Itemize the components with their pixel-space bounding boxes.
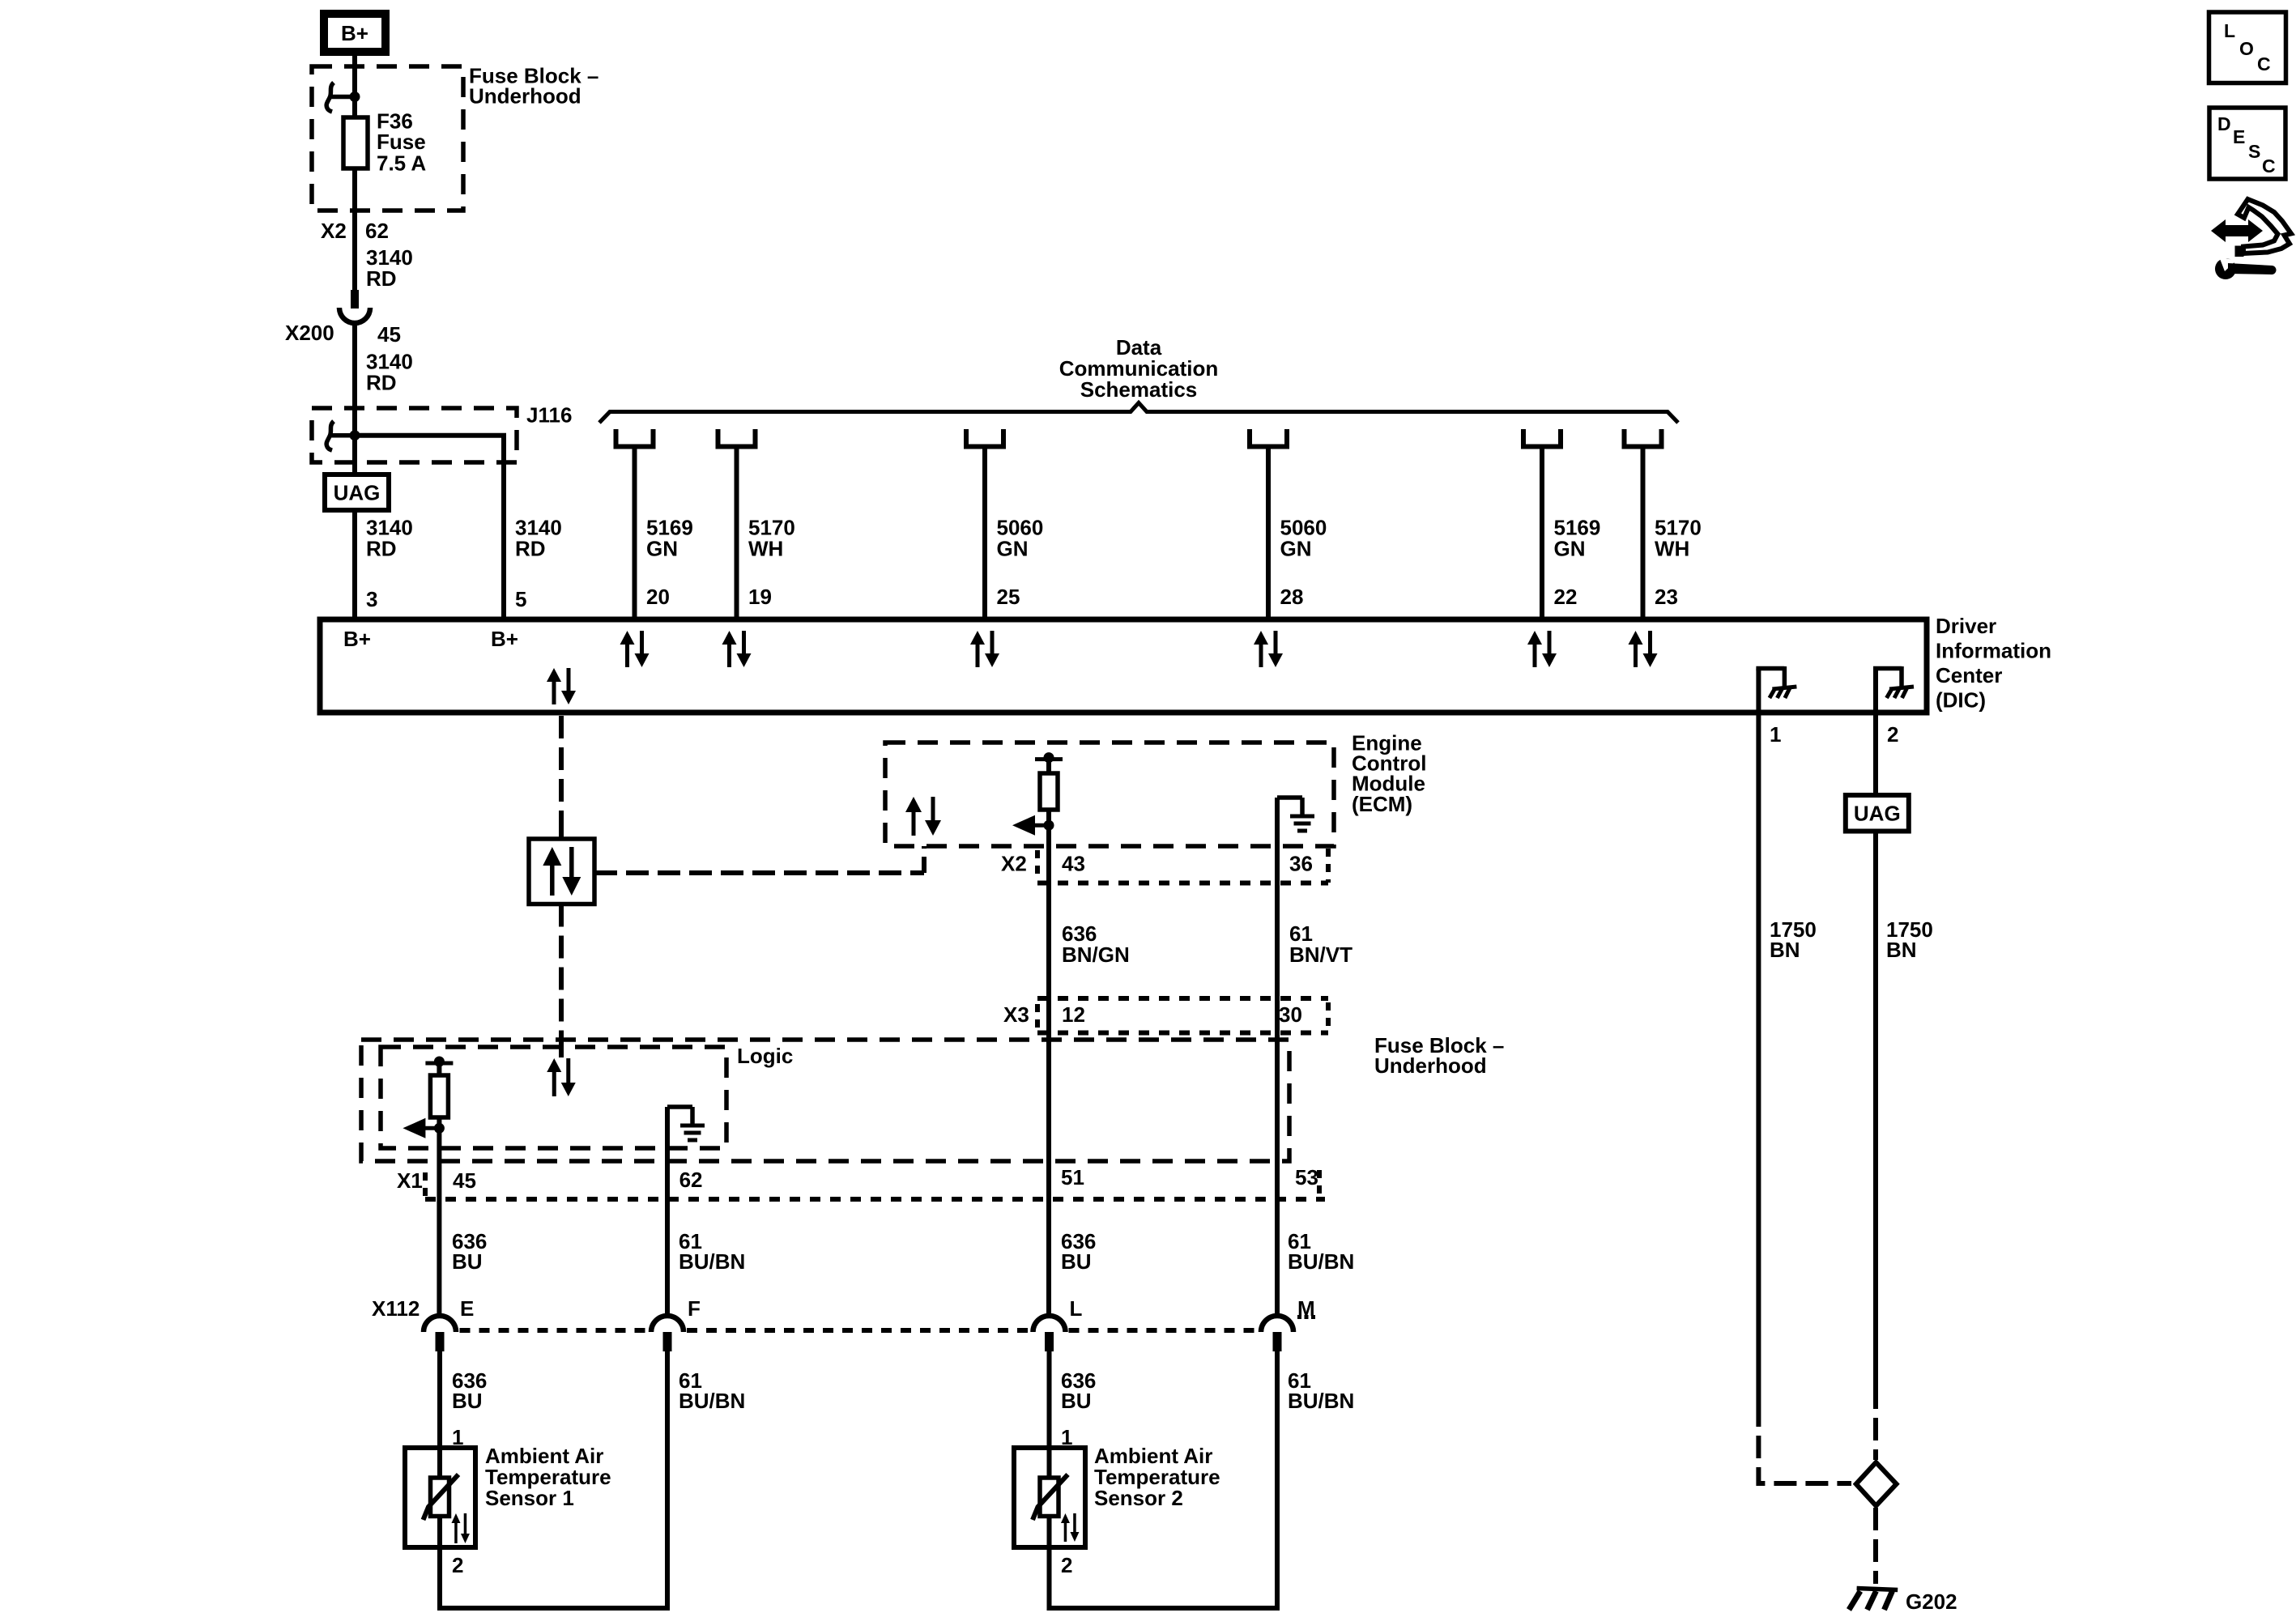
wire 1750 BN pin 2 upper	[1873, 716, 1878, 795]
svg-text:BN: BN	[1770, 938, 1800, 962]
svg-text:B+: B+	[491, 627, 518, 651]
resistor pull-up in ECM	[1035, 757, 1063, 761]
svg-text:M: M	[1297, 1296, 1315, 1321]
svg-text:2: 2	[1061, 1553, 1072, 1577]
Engine Control Module dashed box	[885, 743, 1334, 846]
svg-text:GN: GN	[1554, 537, 1586, 561]
svg-text:X3: X3	[1003, 1002, 1029, 1027]
svg-text:1: 1	[1770, 722, 1781, 747]
bidirectional arrows pin 25	[976, 643, 980, 667]
svg-text:5: 5	[515, 587, 526, 611]
hook terminal in J116	[326, 421, 334, 450]
connector X1 dotted left edge	[423, 1172, 428, 1197]
splice junction dot J116	[350, 430, 360, 440]
logic dashed box	[381, 1047, 726, 1148]
Driver Information Center box	[320, 619, 1927, 713]
arrows in ECM	[912, 811, 916, 836]
connector X3 dotted bottom edge	[1037, 1031, 1328, 1036]
arrows in logic box	[552, 1070, 556, 1096]
svg-text:L: L	[1070, 1296, 1083, 1321]
svg-text:UAG: UAG	[334, 481, 381, 505]
svg-text:BU/BN: BU/BN	[1288, 1249, 1354, 1274]
data wire 5060 GN	[1266, 447, 1271, 618]
connector X112 socket L	[1033, 1316, 1066, 1332]
wire from fuse to connector X2-62	[352, 168, 357, 290]
chassis ground symbol DIC pin 1	[1756, 669, 1761, 717]
connector X3 dotted left edge	[1035, 1004, 1040, 1028]
connector X1 dotted right edge	[1317, 1170, 1322, 1197]
svg-text:X2: X2	[321, 219, 347, 243]
hot-at-all-times hook terminal	[326, 83, 334, 112]
bidirectional arrows pin 28	[1259, 643, 1263, 667]
svg-text:BN/GN: BN/GN	[1062, 943, 1130, 967]
sensor 2 internal wire	[1047, 1448, 1052, 1479]
svg-text:E: E	[2233, 126, 2245, 147]
wire 3140 RD from B+ to fuse F36	[352, 56, 357, 117]
connector X112 trailing dots	[1297, 1315, 1301, 1319]
wire 61 BN/VT	[1275, 798, 1280, 1316]
svg-text:X112: X112	[372, 1296, 420, 1321]
svg-text:O: O	[2239, 38, 2254, 59]
svg-text:J116: J116	[526, 403, 572, 428]
svg-text:Driver: Driver	[1936, 614, 1996, 638]
svg-text:2: 2	[452, 1553, 463, 1577]
svg-text:28: 28	[1280, 585, 1304, 609]
ambient air temperature sensor 2 box	[1014, 1448, 1085, 1547]
wire J116 branch to DIC pin 5	[355, 436, 504, 617]
svg-text:X1: X1	[397, 1168, 423, 1193]
svg-text:C: C	[2257, 53, 2271, 74]
data link cup connector 1	[616, 429, 654, 447]
data link cup connector 6	[1625, 429, 1662, 447]
svg-text:2: 2	[1887, 722, 1898, 747]
dashed serial data wire below box	[559, 904, 564, 1057]
svg-text:Sensor 1: Sensor 1	[485, 1486, 574, 1510]
earth ground in logic	[667, 1104, 692, 1109]
svg-text:19: 19	[748, 585, 772, 609]
svg-text:F: F	[688, 1296, 701, 1321]
splice J116 dashed box	[312, 408, 517, 462]
connector X200 socket arc	[339, 308, 370, 323]
ambient air temperature sensor 1 box	[405, 1448, 475, 1547]
svg-text:S: S	[2248, 141, 2260, 162]
data link cup connector 3	[966, 429, 1003, 447]
arrows in sensor 1	[454, 1521, 458, 1543]
LOC hyperlink box	[2209, 12, 2286, 83]
svg-text:12: 12	[1062, 1002, 1085, 1027]
wire sensor 2 pin 2 down	[1047, 1547, 1052, 1611]
brace over data wires	[599, 403, 1678, 423]
connector X2 dotted bottom edge	[1037, 881, 1328, 886]
dashed serial data wire from DIC	[559, 716, 564, 839]
connector X112 dashed line 2	[687, 1328, 1030, 1333]
svg-text:36: 36	[1289, 852, 1313, 876]
connector X112 dashed line 3	[1069, 1328, 1259, 1333]
junction dot at fuse feed	[350, 91, 360, 102]
svg-text:30: 30	[1279, 1002, 1302, 1027]
connector X112 socket E	[424, 1316, 456, 1332]
connector X112 dashed line 1	[460, 1328, 649, 1333]
svg-text:RD: RD	[366, 537, 397, 561]
svg-text:BU: BU	[1061, 1249, 1092, 1274]
wire 636 BU to sensor 2	[1047, 1351, 1052, 1479]
svg-text:45: 45	[377, 322, 401, 347]
serial data arrow box	[529, 839, 594, 904]
dashed wire 1750 BN pin 1 lower	[1758, 1404, 1851, 1483]
wire sensor 1 pin 2 down	[437, 1547, 442, 1611]
svg-text:(ECM): (ECM)	[1352, 792, 1412, 816]
svg-text:BN: BN	[1886, 938, 1917, 962]
svg-text:Center: Center	[1936, 663, 2002, 687]
data link cup connector 2	[718, 429, 756, 447]
wire 3140 RD to J116	[352, 323, 357, 474]
resistor pull-up in logic	[425, 1062, 453, 1066]
svg-text:WH: WH	[1655, 537, 1689, 561]
wire 61 BU/BN down col F	[440, 1351, 667, 1608]
dashed wire splice to ground	[1873, 1508, 1878, 1584]
svg-text:62: 62	[365, 219, 389, 243]
svg-text:B+: B+	[343, 627, 371, 651]
chassis ground symbol DIC pin 2	[1873, 669, 1878, 717]
dashed wire 1750 BN pin 2 lower	[1873, 1386, 1878, 1460]
data link cup connector 4	[1250, 429, 1287, 447]
svg-text:Sensor 2: Sensor 2	[1094, 1486, 1183, 1510]
svg-text:3: 3	[366, 587, 377, 611]
data link cup connector 5	[1523, 429, 1561, 447]
connector X112 socket F	[651, 1316, 684, 1332]
UAG fuse label box 2	[1846, 795, 1909, 832]
svg-text:Information: Information	[1936, 639, 2051, 663]
svg-text:X200: X200	[285, 321, 334, 345]
dashed serial data wire to ECM	[594, 870, 924, 875]
svg-text:62: 62	[679, 1168, 703, 1192]
bidirectional arrows pin 20	[625, 643, 629, 667]
svg-text:BU/BN: BU/BN	[679, 1389, 745, 1413]
connector X2 dotted left edge	[1035, 850, 1040, 879]
svg-text:22: 22	[1554, 585, 1578, 609]
thermistor sensor 1	[431, 1478, 449, 1517]
svg-text:(DIC): (DIC)	[1936, 688, 1986, 713]
UAG fuse label box	[325, 474, 389, 510]
connector X2 dotted right edge	[1326, 849, 1331, 883]
fuse block underhood dashed box	[312, 66, 463, 211]
svg-text:RD: RD	[366, 370, 397, 394]
svg-text:Underhood: Underhood	[469, 84, 581, 109]
connector X1 dotted bottom edge	[425, 1197, 1325, 1202]
bidirectional arrows serial data	[552, 680, 556, 704]
wire 636 BU to sensor 1	[437, 1351, 442, 1479]
wire UAG to DIC pin 3	[352, 510, 357, 617]
svg-text:RD: RD	[515, 537, 546, 561]
svg-text:G202: G202	[1906, 1589, 1957, 1614]
data wire 5169 GN	[633, 447, 637, 618]
svg-text:BU: BU	[452, 1389, 483, 1413]
bidirectional arrows pin 19	[727, 643, 731, 667]
svg-text:45: 45	[453, 1168, 476, 1193]
earth ground in ECM	[1277, 795, 1302, 800]
svg-text:43: 43	[1062, 852, 1085, 876]
data wire 5060 GN	[982, 447, 987, 618]
connector X3 dotted top edge	[1037, 996, 1328, 1001]
data wire 5170 WH	[1641, 447, 1646, 618]
data wire 5170 WH	[735, 447, 739, 618]
wire 1750 BN pin 2 mid	[1873, 832, 1878, 1387]
fuse F36 element	[343, 117, 368, 168]
arrows in serial data box	[550, 864, 555, 896]
fuse block underhood dashed box 2	[361, 1040, 1289, 1161]
bidirectional arrows pin 23	[1634, 643, 1638, 667]
svg-text:BN/VT: BN/VT	[1289, 943, 1352, 967]
DESC hyperlink box	[2209, 108, 2285, 179]
connector X200 terminal pin	[351, 290, 359, 309]
svg-text:BU/BN: BU/BN	[1288, 1389, 1354, 1413]
dashed serial data jog up to ECM	[922, 846, 926, 873]
diagnostic info icon	[2238, 199, 2291, 253]
wire 61 BU/BN from logic	[665, 1107, 670, 1316]
svg-text:C: C	[2262, 155, 2276, 177]
wire 1750 BN pin 1	[1756, 716, 1761, 1404]
svg-text:BU/BN: BU/BN	[679, 1249, 745, 1274]
svg-text:20: 20	[646, 585, 670, 609]
data wire 5169 GN	[1540, 447, 1544, 618]
svg-text:B+: B+	[341, 21, 368, 45]
svg-text:BU: BU	[452, 1249, 483, 1274]
thermistor sensor 2	[1040, 1478, 1059, 1517]
svg-text:GN: GN	[1280, 537, 1312, 561]
svg-text:GN: GN	[997, 537, 1029, 561]
svg-text:GN: GN	[646, 537, 678, 561]
ground G202 symbol	[1857, 1589, 1898, 1590]
wire 636 BU from logic	[437, 1128, 441, 1316]
svg-text:WH: WH	[748, 537, 783, 561]
svg-text:51: 51	[1061, 1165, 1084, 1189]
connector X3 dotted right edge	[1326, 1002, 1331, 1030]
svg-text:RD: RD	[366, 266, 397, 291]
svg-text:UAG: UAG	[1854, 802, 1901, 826]
svg-text:E: E	[460, 1296, 474, 1321]
svg-text:7.5 A: 7.5 A	[377, 151, 426, 176]
wire 61 BU/BN down col M	[1050, 1351, 1278, 1608]
svg-text:Schematics: Schematics	[1080, 377, 1198, 402]
svg-text:L: L	[2224, 20, 2235, 41]
wire 636 BN/GN	[1046, 825, 1051, 1316]
svg-text:D: D	[2217, 113, 2231, 134]
sensor 1 internal wire	[437, 1448, 442, 1479]
B+ battery positive voltage box	[324, 14, 386, 52]
svg-text:Underhood: Underhood	[1374, 1053, 1487, 1078]
svg-text:Logic: Logic	[737, 1044, 793, 1068]
arrows in sensor 2	[1064, 1521, 1067, 1542]
bidirectional arrows pin 22	[1533, 643, 1537, 667]
svg-text:25: 25	[997, 585, 1020, 609]
svg-text:X2: X2	[1001, 852, 1027, 876]
svg-text:23: 23	[1655, 585, 1678, 609]
connector X112 socket M	[1261, 1316, 1293, 1332]
svg-text:53: 53	[1295, 1165, 1318, 1189]
svg-text:BU: BU	[1061, 1389, 1092, 1413]
splice pack diamond	[1856, 1462, 1897, 1506]
